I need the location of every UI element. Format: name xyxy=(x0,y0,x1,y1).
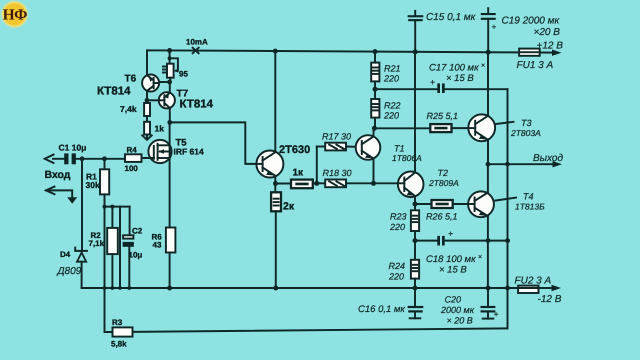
resistor 1k xyxy=(144,122,164,135)
transistor T6 KT814 xyxy=(97,74,159,98)
svg-text:Д809: Д809 xyxy=(57,266,82,277)
wire T7 collector to node xyxy=(167,108,172,125)
svg-text:-12 В: -12 В xyxy=(538,294,562,305)
svg-text:220: 220 xyxy=(389,222,405,232)
svg-text:2Т803А: 2Т803А xyxy=(510,128,541,138)
resistor R18 30 xyxy=(323,168,399,187)
svg-text:R21: R21 xyxy=(384,64,401,74)
zener D4 D809 xyxy=(57,159,87,288)
resistor R26 5,1 xyxy=(426,200,469,222)
output wire Выход xyxy=(488,153,563,167)
svg-text:+: + xyxy=(494,309,499,319)
svg-text:Т2: Т2 xyxy=(438,168,449,178)
svg-text:7,1k: 7,1k xyxy=(89,239,105,248)
svg-text:1к: 1к xyxy=(293,167,305,178)
svg-text:IRF 614: IRF 614 xyxy=(174,147,205,157)
wire T1 emitter down to T2 base xyxy=(371,159,376,186)
svg-text:Выход: Выход xyxy=(533,153,563,164)
svg-text:+: + xyxy=(430,77,435,87)
svg-text:10mA: 10mA xyxy=(186,38,208,47)
svg-text:КТ814: КТ814 xyxy=(97,86,131,98)
capacitor C17 100mk x15V xyxy=(375,63,508,93)
wire input node xyxy=(76,156,125,161)
svg-text:Т3: Т3 xyxy=(521,118,532,128)
rail x=415 C15 to T2 xyxy=(414,52,416,173)
capacitor C18 100mk x15V xyxy=(415,228,510,275)
resistor R6 43 xyxy=(152,228,176,289)
wire: +12V top rail xyxy=(147,50,553,74)
svg-text:Вход: Вход xyxy=(45,169,71,181)
resistor R22 220 xyxy=(371,99,400,121)
svg-text:R18 30: R18 30 xyxy=(323,168,352,178)
wire output rail x=507.5 xyxy=(507,89,509,328)
wire node to 2T630 base xyxy=(170,122,257,163)
wire T5 drain/source rail to R6 xyxy=(169,122,171,227)
wire C19/T3 collector xyxy=(487,52,489,116)
wire R1 bottom junction xyxy=(103,205,130,288)
svg-text:7,4k: 7,4k xyxy=(120,104,137,114)
node 1k/R18/R17 junction xyxy=(314,147,325,186)
resistor 1k horizontal xyxy=(291,167,317,188)
svg-text:1k: 1k xyxy=(155,124,165,134)
svg-text:2000 мк: 2000 мк xyxy=(440,305,475,315)
svg-text:R24: R24 xyxy=(389,261,406,271)
svg-text:R4: R4 xyxy=(127,145,138,154)
svg-text:С2: С2 xyxy=(132,227,143,236)
svg-text:R3: R3 xyxy=(112,318,123,327)
transistor T1 1T806A xyxy=(356,135,422,163)
svg-text:С1 10μ: С1 10μ xyxy=(59,142,87,152)
svg-text:FU2 3 А: FU2 3 А xyxy=(515,275,552,286)
logo НФ xyxy=(1,0,29,28)
fuse FU1 3A xyxy=(517,49,554,71)
transistor T3 2T803A xyxy=(468,114,541,141)
input ground arrow xyxy=(46,187,77,204)
arrow +12V xyxy=(537,40,564,56)
transistor T4 1T813B xyxy=(468,191,545,217)
svg-text:100: 100 xyxy=(125,164,139,173)
svg-text:5,8k: 5,8k xyxy=(111,339,127,348)
svg-text:1Т813Б: 1Т813Б xyxy=(515,201,545,211)
svg-text:КТ814: КТ814 xyxy=(180,99,214,111)
wire T3 emitter to output node xyxy=(486,140,491,167)
wire T2 emitter node xyxy=(413,196,432,210)
svg-text:Т6: Т6 xyxy=(125,74,137,85)
wire R25 row xyxy=(374,127,468,129)
svg-text:+: + xyxy=(448,228,453,238)
resistor 2k xyxy=(271,192,295,288)
capacitor C16 0,1mk xyxy=(358,288,423,318)
svg-text:220: 220 xyxy=(383,111,399,121)
svg-text:2Т630: 2Т630 xyxy=(279,144,310,156)
resistor R21 220 xyxy=(371,52,400,99)
potentiometer 95 xyxy=(163,51,188,83)
svg-text:R17 30: R17 30 xyxy=(322,131,351,141)
svg-text:2к: 2к xyxy=(283,201,295,213)
svg-text:×20 В: ×20 В xyxy=(534,27,561,38)
wire T6 collector down / T7 base xyxy=(145,91,159,103)
svg-text:R22: R22 xyxy=(384,101,401,111)
resistor R23 220 xyxy=(389,210,419,259)
svg-text:2Т809А: 2Т809А xyxy=(428,178,459,188)
svg-text:43: 43 xyxy=(153,240,162,249)
ground bus wire xyxy=(82,286,518,291)
transistor T5 IRF614 mosfet xyxy=(142,138,205,164)
svg-text:С16 0,1 мк: С16 0,1 мк xyxy=(358,304,405,315)
svg-text:× 15 В: × 15 В xyxy=(446,73,474,84)
svg-text:× 15 В: × 15 В xyxy=(439,265,467,276)
capacitor C15 0,1mk xyxy=(408,11,477,52)
wire T1 collector up xyxy=(372,117,377,137)
svg-text:НФ: НФ xyxy=(3,7,28,24)
wire T7 emitter up xyxy=(169,82,171,93)
capacitor C2 10u xyxy=(123,207,143,288)
svg-text:30k: 30k xyxy=(86,180,100,190)
svg-text:С18 100 мк ˟: С18 100 мк ˟ xyxy=(426,254,482,265)
capacitor C1 10u xyxy=(45,142,87,164)
resistor R2 7,1k xyxy=(89,207,118,288)
resistor R3 5,8k feedback xyxy=(105,288,508,348)
svg-text:220: 220 xyxy=(383,74,399,84)
capacitor C19 2000mk x20V xyxy=(481,8,561,52)
node: rail junction dots xyxy=(167,48,491,55)
resistor R17 30 xyxy=(322,131,356,150)
svg-text:D4: D4 xyxy=(60,250,71,259)
svg-text:95: 95 xyxy=(179,70,188,79)
wire 7,4k to 1k xyxy=(146,116,148,122)
svg-text:× 20 В: × 20 В xyxy=(447,315,473,325)
svg-text:С19 2000 мк: С19 2000 мк xyxy=(502,15,561,26)
svg-text:10μ: 10μ xyxy=(129,250,143,259)
svg-text:FU1 3 А: FU1 3 А xyxy=(517,60,554,71)
resistor 7,4k xyxy=(120,103,150,116)
fuse FU2 3A xyxy=(515,275,562,305)
resistor R4 100 xyxy=(125,145,154,173)
wire T6 base to pot xyxy=(159,80,172,85)
ground arrow below 1k xyxy=(142,135,151,140)
svg-text:С20: С20 xyxy=(445,294,462,304)
wire 2T630 collector to rail xyxy=(274,51,276,152)
svg-text:+: + xyxy=(492,23,497,32)
svg-text:1Т806А: 1Т806А xyxy=(392,153,422,163)
measuring point X 10mA xyxy=(186,38,208,54)
wire T4 collector to output node xyxy=(487,164,489,192)
svg-text:Т1: Т1 xyxy=(394,144,405,154)
svg-text:Т4: Т4 xyxy=(523,191,534,201)
wire 2T630 emitter node xyxy=(273,176,291,193)
transistor T2 2T809A xyxy=(398,168,459,197)
resistor R25 5,1 xyxy=(427,111,459,132)
svg-text:220: 220 xyxy=(388,271,404,281)
transistor T7 KT814 xyxy=(159,89,214,111)
resistor R1 30k xyxy=(86,159,110,207)
capacitor C20 2000mk x20V xyxy=(440,288,499,325)
svg-text:R26 5,1: R26 5,1 xyxy=(426,212,458,222)
wire T4 emitter down to bus xyxy=(487,216,489,288)
svg-text:С15 0,1 мк: С15 0,1 мк xyxy=(426,12,477,23)
svg-text:R25 5,1: R25 5,1 xyxy=(427,111,459,121)
transistor 2T630 xyxy=(256,144,310,178)
svg-text:R23: R23 xyxy=(390,211,407,221)
resistor R24 220 xyxy=(388,260,419,288)
